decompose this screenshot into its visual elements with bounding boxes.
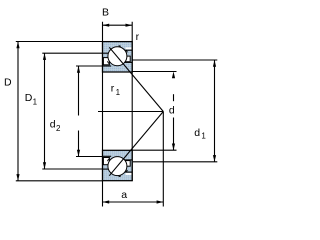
- svg-text:r: r: [111, 83, 115, 95]
- svg-text:d: d: [50, 118, 56, 130]
- svg-text:d: d: [194, 127, 200, 139]
- svg-text:1: 1: [116, 88, 121, 97]
- svg-text:a: a: [121, 189, 127, 201]
- svg-text:1: 1: [33, 98, 38, 107]
- svg-text:B: B: [102, 7, 109, 19]
- svg-text:D: D: [25, 92, 33, 104]
- svg-text:r: r: [136, 31, 140, 43]
- svg-text:d: d: [169, 105, 175, 117]
- svg-text:1: 1: [201, 131, 206, 140]
- svg-text:2: 2: [56, 124, 61, 133]
- svg-text:D: D: [4, 76, 12, 88]
